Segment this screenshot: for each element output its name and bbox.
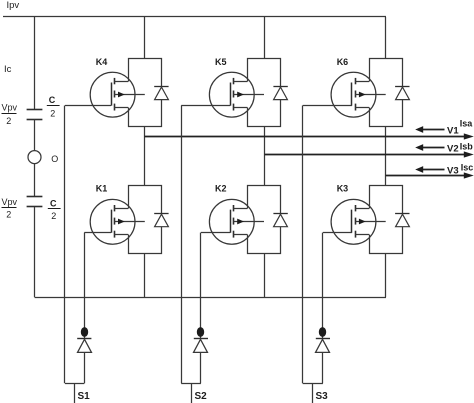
wire between node O and lower capacitor	[34, 164, 36, 197]
transistor K5	[181, 72, 264, 117]
wire K1 bottom to bus	[144, 254, 146, 298]
svg-text:Isc: Isc	[461, 163, 474, 173]
wire K4 drop from top bus	[144, 17, 146, 59]
transistor K3	[323, 199, 386, 244]
wire K3 module frame	[370, 186, 403, 254]
svg-text:K2: K2	[215, 184, 227, 194]
capacitor C/2 (lower)	[27, 197, 43, 207]
wire S1 bottom link	[65, 383, 84, 385]
diode D5 (K5 freewheel)	[273, 87, 287, 100]
svg-text:Ipv: Ipv	[7, 0, 20, 11]
label Vpv/2 (upper)	[2, 103, 18, 127]
node O	[28, 151, 41, 164]
transistor K2	[201, 199, 264, 244]
wire phase A midpoint vertical	[144, 127, 146, 186]
wire K5 gate down to S2	[181, 106, 183, 384]
svg-text:2: 2	[6, 116, 11, 126]
wire K3 bottom to bus	[385, 254, 387, 298]
label K4	[96, 57, 108, 67]
label C/2 (lower)	[48, 198, 61, 221]
svg-text:K1: K1	[96, 184, 108, 194]
label V2	[447, 144, 459, 155]
wire K1 gate down to S1	[84, 233, 86, 339]
svg-text:Isb: Isb	[460, 142, 474, 152]
svg-text:K3: K3	[337, 184, 349, 194]
svg-text:Isa: Isa	[460, 119, 474, 129]
wire bottom DC bus	[35, 297, 386, 299]
node dot S3	[319, 327, 326, 337]
wire K1 module frame	[129, 186, 162, 254]
wire phase B midpoint vertical	[264, 127, 266, 186]
wire K2 bottom to bus	[264, 254, 266, 298]
diode D1 (K1 freewheel)	[154, 214, 168, 227]
wire phase B output line with arrow	[265, 151, 474, 157]
wire K3 gate down to S3	[322, 233, 324, 339]
wire K2 gate down to S2	[200, 233, 202, 339]
wire S1 terminal stub	[74, 383, 76, 403]
diode S3 branch	[316, 339, 331, 353]
diode D2 (K2 freewheel)	[273, 214, 287, 227]
svg-text:K6: K6	[337, 57, 349, 67]
svg-text:S1: S1	[78, 391, 91, 402]
svg-text:S2: S2	[195, 391, 208, 402]
diode S2 branch	[194, 339, 209, 353]
label Ic	[4, 64, 12, 75]
svg-text:C: C	[50, 198, 57, 208]
wire K4 gate down to S1	[64, 106, 66, 384]
svg-text:Vpv: Vpv	[2, 197, 18, 207]
wire top DC bus	[3, 16, 386, 18]
wire K6 gate down to S3	[302, 106, 304, 384]
label S3	[316, 391, 329, 402]
wire S2 terminal stub	[191, 383, 193, 403]
label C/2 (upper)	[47, 95, 60, 118]
wire left source branch upper	[34, 17, 36, 109]
svg-text:V1: V1	[447, 126, 459, 137]
svg-text:V3: V3	[447, 165, 459, 176]
svg-text:O: O	[51, 154, 58, 164]
transistor K6	[303, 72, 386, 117]
diode D3 (K3 freewheel)	[395, 214, 409, 227]
wire S2 bottom link	[181, 383, 201, 385]
svg-text:Vpv: Vpv	[2, 103, 18, 113]
label K5	[215, 57, 227, 67]
wire S1 below diode	[84, 352, 86, 383]
label Isa	[460, 119, 474, 129]
wire K5 drop from top bus	[264, 17, 266, 59]
svg-text:S3: S3	[316, 391, 329, 402]
svg-text:2: 2	[51, 211, 56, 221]
wire phase A output line with arrow	[145, 133, 474, 139]
svg-text:V2: V2	[447, 144, 459, 155]
wire left source branch lower	[34, 207, 36, 297]
arrow V2 annotation	[415, 144, 444, 151]
diode D6 (K6 freewheel)	[395, 87, 409, 100]
svg-text:C: C	[49, 95, 56, 105]
svg-text:2: 2	[50, 109, 55, 119]
label Isc	[461, 163, 474, 173]
svg-text:K4: K4	[96, 57, 108, 67]
wire K6 drop from top bus	[385, 17, 387, 59]
wire between upper capacitor and node O	[34, 120, 36, 151]
label K3	[337, 184, 349, 194]
arrow V3 annotation	[415, 166, 444, 173]
node dot S1	[81, 327, 88, 337]
label O	[51, 154, 58, 164]
wire K5 module frame	[248, 59, 281, 127]
svg-text:2: 2	[6, 210, 11, 220]
wire S3 below diode	[322, 352, 324, 383]
wire K4 module frame	[129, 59, 162, 127]
wire K6 module frame	[370, 59, 403, 127]
transistor K1	[84, 199, 145, 244]
wire phase C output line with arrow	[386, 172, 474, 178]
label S1	[78, 391, 91, 402]
label Ipv	[7, 0, 20, 11]
svg-text:K5: K5	[215, 57, 227, 67]
label Isb	[460, 142, 474, 152]
label V3	[447, 165, 459, 176]
label S2	[195, 391, 208, 402]
label Vpv/2 (lower)	[2, 197, 18, 220]
wire S2 below diode	[200, 352, 202, 383]
diode D4 (K4 freewheel)	[154, 87, 168, 100]
label K1	[96, 184, 108, 194]
diode S1 branch	[77, 339, 91, 353]
transistor K4	[65, 72, 145, 117]
label K2	[215, 184, 227, 194]
wire K2 module frame	[248, 186, 281, 254]
arrow V1 annotation	[415, 126, 444, 133]
wire S3 bottom link	[303, 383, 323, 385]
node dot S2	[197, 327, 204, 337]
capacitor C/2 (upper)	[27, 110, 43, 120]
label V1	[447, 126, 459, 137]
wire phase C midpoint vertical	[385, 127, 387, 186]
svg-text:Ic: Ic	[4, 64, 12, 75]
label K6	[337, 57, 349, 67]
wire S3 terminal stub	[312, 383, 314, 403]
